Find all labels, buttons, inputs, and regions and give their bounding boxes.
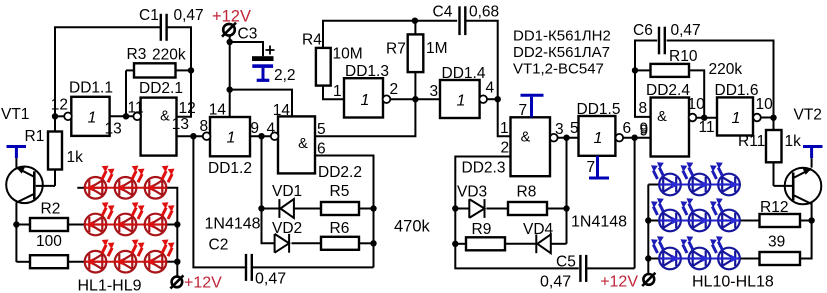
svg-text:DD2.1: DD2.1 (139, 80, 183, 97)
svg-text:11: 11 (699, 119, 715, 136)
svg-text:&: & (521, 130, 531, 146)
wire DD2.4 out to DD1.6 in (697, 117, 718, 119)
resistor R2 100 (16, 224, 30, 226)
svg-text:DD1.5: DD1.5 (577, 101, 621, 118)
terminal +12V (blue block) (642, 273, 655, 286)
junction dot DD2.3 out (563, 135, 569, 141)
svg-text:R8: R8 (517, 184, 537, 201)
wire DD1.5 out to DD2.4 pin9 (623, 137, 650, 139)
svg-text:DD1-К561ЛН2: DD1-К561ЛН2 (513, 28, 611, 45)
svg-text:1: 1 (732, 110, 741, 127)
wire C6/R10 node down to DD2.4 pin8 (635, 70, 651, 117)
junction dot blue bus row3 (645, 255, 651, 261)
svg-text:VD2: VD2 (272, 220, 302, 237)
resistor R3 220k (176, 69, 192, 71)
junction dot R3 right (188, 67, 194, 73)
svg-text:R7: R7 (386, 41, 406, 58)
wire VD4/R8 right bus up to DD2.3 out (566, 138, 568, 244)
NAND gate DD2.2 (278, 116, 315, 173)
ground T (blue) DD1.5 pin7 (589, 156, 609, 178)
wire DD2.2 pin5 to mid node (315, 99, 415, 136)
inverter DD1.4 (440, 80, 480, 118)
capacitor C6 0,47 (659, 27, 665, 55)
svg-text:13: 13 (105, 121, 122, 138)
transistor VT2 BC547 (785, 168, 822, 205)
LEDs HL1-HL9 (red) (85, 177, 107, 199)
svg-text:1N4148: 1N4148 (205, 216, 261, 233)
wire node B down to diodes (262, 136, 275, 243)
wire DD2.3 out to DD1.5 in (558, 137, 579, 139)
wire blue bus (648, 184, 659, 186)
svg-text:1k: 1k (67, 149, 84, 166)
junction dot DD1.4 out (495, 96, 501, 102)
wire R10 right down to DD2.4 out (689, 70, 704, 117)
wire DD1.6 out (761, 117, 774, 119)
wire C5 right (587, 267, 634, 269)
svg-text:R10: R10 (669, 48, 698, 65)
junction dot VD1 row (258, 205, 264, 211)
svg-text:DD1.4: DD1.4 (442, 65, 486, 82)
svg-text:0,68: 0,68 (469, 4, 499, 21)
svg-text:2: 2 (390, 81, 399, 98)
svg-text:7: 7 (587, 159, 596, 176)
svg-text:C6: C6 (633, 22, 653, 39)
svg-text:C4: C4 (433, 4, 453, 21)
wire 14-rail to DD2.2 pin14 (230, 90, 292, 117)
terminal +12V (red block) (170, 275, 183, 288)
svg-text:1N4148: 1N4148 (571, 214, 627, 231)
svg-text:220k: 220k (709, 61, 743, 78)
junction dot R12 tap (808, 217, 814, 223)
svg-text:R3: R3 (127, 46, 147, 63)
svg-text:DD1.6: DD1.6 (715, 82, 759, 99)
wire DD1.1 input (110, 115, 134, 117)
svg-text:6: 6 (623, 120, 632, 137)
resistor R9 (455, 243, 466, 245)
wire C4 right down to DD2.3 pin1 (465, 21, 510, 137)
junction dot R5 row (370, 205, 376, 211)
svg-text:0,47: 0,47 (255, 271, 286, 288)
svg-text:220k: 220k (152, 47, 186, 64)
diode VD2 1N4148 (275, 234, 290, 253)
svg-text:1: 1 (227, 130, 236, 147)
svg-text:100: 100 (36, 233, 62, 250)
svg-text:VD4: VD4 (523, 221, 554, 238)
svg-text:3: 3 (430, 83, 439, 100)
VT1 base wire (36, 185, 55, 187)
svg-text:12: 12 (179, 100, 196, 117)
svg-text:2: 2 (501, 140, 510, 157)
wire red bus (166, 224, 177, 226)
svg-text:1: 1 (500, 120, 509, 137)
svg-text:C2: C2 (209, 237, 229, 254)
junction dot DD1.6 out (770, 115, 776, 121)
inverter DD1.3 (344, 78, 383, 117)
wire C1 right to DD2.1 pin12 (167, 27, 191, 116)
red LED row3 wire (68, 261, 85, 263)
svg-text:R12: R12 (760, 199, 788, 216)
junction dot R9 row (452, 241, 458, 247)
svg-text:DD2.2: DD2.2 (318, 164, 362, 181)
svg-text:10: 10 (756, 96, 774, 113)
ground T (blue) DD2.3 pin7 (521, 95, 544, 117)
diode VD4 1N4148 (536, 234, 551, 253)
capacitor C3 2,2 electrolytic (252, 56, 274, 61)
svg-text:R2: R2 (41, 201, 61, 218)
junction dot red bus row2 (174, 221, 180, 227)
svg-text:1M: 1M (426, 40, 448, 57)
svg-text:C1: C1 (139, 7, 159, 24)
wire to C6 left (635, 41, 657, 71)
wire into row3 resistor (16, 261, 30, 263)
wire R3 left down to DD1.1 input node (125, 70, 127, 116)
svg-text:VT1: VT1 (1, 106, 29, 123)
red LED row2 wire (68, 224, 85, 226)
resistor R11 1k (773, 118, 775, 130)
inverter DD1.1 (71, 97, 109, 136)
NAND gate DD2.4 (651, 98, 689, 157)
svg-text:DD1.2: DD1.2 (208, 160, 252, 177)
svg-text:DD2.4: DD2.4 (646, 82, 690, 99)
junction dot R8 right (563, 205, 569, 211)
inverter DD1.6 (717, 97, 753, 135)
svg-text:3: 3 (555, 121, 564, 138)
svg-text:&: & (160, 109, 170, 125)
junction dot DD1.1 in (123, 113, 129, 119)
inverter DD1.2 (210, 117, 250, 156)
VT2 base wire (774, 185, 794, 187)
svg-text:+12V: +12V (212, 8, 251, 26)
svg-text:C5: C5 (556, 254, 576, 271)
wire DD1.2 in to DD2.2 out (250, 135, 275, 137)
wire DD2.1 pin13 to DD1.2 out pin8 (177, 135, 204, 137)
resistor R7 1M (414, 21, 416, 35)
diode VD3 1N4148 (455, 208, 469, 210)
wire DD1.5 out node down to C5 right (634, 138, 636, 269)
junction dot node B (258, 133, 264, 139)
svg-text:+12V: +12V (600, 274, 638, 291)
resistor R5 (321, 202, 359, 215)
junction dot C6/R10 left (632, 67, 638, 73)
wire node: DD1.1 out / C1 left / R1 top (55, 115, 65, 117)
junction dot R2 tap (13, 221, 19, 227)
svg-text:1: 1 (333, 83, 342, 100)
NAND gate DD2.3 (511, 117, 551, 176)
VT1 collector wire down to R2/R2a node (15, 202, 17, 262)
resistor R1 1k (54, 116, 56, 131)
VT2 collector down to R12 rows (800, 202, 812, 258)
resistor R6 (321, 237, 359, 250)
svg-text:VT2: VT2 (794, 107, 822, 124)
junction dot R7 top (412, 18, 418, 24)
junction dot DD2.4 out (701, 115, 707, 121)
svg-text:470k: 470k (394, 218, 431, 236)
resistor R4 10M (316, 48, 331, 86)
junction dot blue bus row2 (645, 217, 651, 223)
resistor R12a (row3) (760, 252, 801, 265)
wire DD2.3 pin2 to VD3/R9 bus (455, 157, 579, 269)
svg-text:VT1,2-BC547: VT1,2-BC547 (513, 60, 604, 77)
svg-text:R5: R5 (330, 183, 350, 200)
wire C2 right to DD2.2 pin6 bus (252, 266, 373, 268)
svg-text:4: 4 (486, 80, 495, 97)
resistor R10 220k (635, 69, 651, 71)
wire R4 bottom to DD1.3 in (323, 86, 344, 100)
resistor R2a (row3) (30, 255, 68, 268)
svg-text:9: 9 (640, 121, 649, 138)
svg-text:1: 1 (88, 110, 97, 127)
svg-text:39: 39 (768, 234, 785, 251)
svg-text:R1: R1 (25, 128, 45, 145)
blue LED row3 wire (659, 258, 740, 260)
svg-text:1: 1 (361, 92, 370, 109)
diode VD1 1N4148 (262, 208, 279, 210)
resistor R12 39 (760, 214, 801, 227)
svg-text:+12V: +12V (184, 275, 222, 292)
blue LED row2 wire (659, 220, 740, 222)
VT1 emitter wire up (15, 158, 17, 167)
junction dot 14-rail (227, 86, 233, 92)
svg-text:DD1.3: DD1.3 (345, 63, 389, 80)
wire DD1.3 out to DD1.4 in (390, 98, 440, 100)
svg-text:11: 11 (128, 100, 144, 117)
svg-text:C3: C3 (238, 26, 258, 43)
wire top rail R4/R7/C4 (323, 21, 457, 48)
resistor R8 (508, 202, 547, 215)
junction dot node A (52, 113, 58, 119)
svg-text:8: 8 (639, 100, 648, 117)
junction dot mid node / R7 bottom (412, 96, 418, 102)
svg-text:0,47: 0,47 (540, 274, 571, 291)
svg-text:10M: 10M (333, 46, 363, 63)
terminal +12V top (222, 23, 236, 37)
wire DD2.2 pin6 down to R5/R6 bus (315, 156, 374, 268)
svg-text:13: 13 (172, 116, 189, 133)
svg-text:1k: 1k (785, 133, 802, 150)
svg-text:2,2: 2,2 (274, 67, 296, 84)
transistor VT1 BC547 (6, 167, 43, 204)
svg-text:0,47: 0,47 (671, 22, 701, 39)
svg-text:VD1: VD1 (272, 183, 302, 200)
blue LED row1 wire (659, 184, 741, 186)
svg-text:1: 1 (457, 93, 466, 110)
svg-text:12: 12 (51, 97, 68, 114)
svg-text:VD3: VD3 (457, 184, 487, 201)
svg-text:HL10-HL18: HL10-HL18 (692, 274, 774, 291)
svg-text:DD2.3: DD2.3 (462, 160, 506, 177)
svg-text:&: & (298, 136, 308, 152)
svg-text:DD2-К561ЛА7: DD2-К561ЛА7 (513, 44, 610, 61)
svg-text:HL1-HL9: HL1-HL9 (78, 278, 142, 293)
red LED row1 wire (77, 187, 85, 189)
VT2 emitter wire up (811, 158, 813, 167)
svg-text:1: 1 (594, 130, 603, 147)
svg-text:R11: R11 (738, 133, 765, 150)
junction dot R6 row (370, 240, 376, 246)
svg-text:7: 7 (519, 102, 528, 119)
svg-text:10: 10 (688, 96, 706, 113)
svg-text:R4: R4 (302, 32, 322, 49)
NAND gate DD2.1 (141, 98, 177, 156)
junction dot VD3 row (452, 205, 458, 211)
wire DD1.4 out node (487, 98, 498, 100)
wire pin8 node down to C2 left (193, 136, 245, 267)
svg-text:0,47: 0,47 (174, 7, 204, 24)
junction dot red bus row3 (174, 259, 180, 265)
inverter DD1.5 (579, 116, 616, 156)
svg-text:DD1.1: DD1.1 (69, 80, 113, 97)
antenna/ground T (blue) at VT1 (7, 147, 27, 159)
svg-text:9: 9 (250, 120, 259, 137)
svg-text:5: 5 (570, 120, 579, 137)
capacitor C1 (161, 14, 167, 41)
svg-text:R9: R9 (472, 221, 492, 238)
wire C6 right down to DD1.6 out / R11 (667, 41, 774, 118)
junction dot below terminal (227, 39, 233, 45)
wire to C3 (230, 42, 263, 56)
antenna/ground T (blue) at VT2 (803, 147, 823, 159)
junction dot DD1.5 out (631, 135, 637, 141)
capacitor C4 0,68 (460, 6, 466, 35)
junction dot pin8 node (190, 133, 196, 139)
svg-text:R6: R6 (330, 220, 350, 237)
svg-text:&: & (657, 109, 667, 125)
wire +12V down to DD1.2 pin14 (229, 36, 231, 118)
LEDs HL10-HL18 (blue) (659, 174, 681, 196)
